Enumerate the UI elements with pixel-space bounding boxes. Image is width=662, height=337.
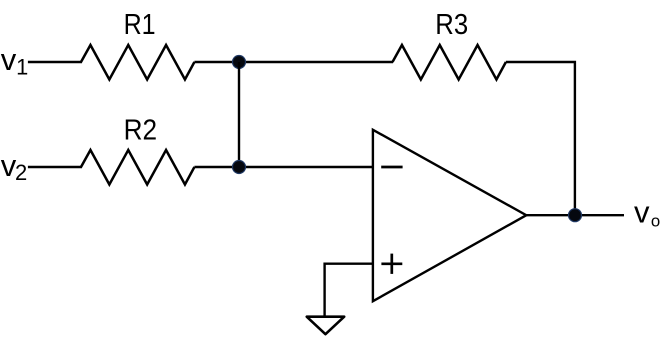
wire R2 to node B: [194, 166, 239, 168]
svg-text:v: v: [1, 42, 17, 77]
resistor R3: [393, 45, 506, 80]
wire node A to node B: [238, 62, 240, 167]
op-amp non-inverting input plus sign: [381, 254, 402, 274]
wire R3 to corner down to output node: [506, 62, 575, 215]
resistor R2: [81, 150, 194, 185]
junction node B: [233, 161, 246, 174]
wire op-amp output to node C: [526, 214, 575, 216]
wire op-amp non-inverting input to ground: [325, 264, 373, 316]
wire node B to op-amp inverting input: [239, 166, 373, 168]
wire v2 to R2: [28, 166, 82, 168]
op-amp U1: [373, 130, 526, 301]
label v2: [1, 148, 28, 185]
svg-text:o: o: [651, 212, 660, 231]
svg-text:v: v: [634, 195, 650, 230]
svg-text:1: 1: [16, 55, 28, 80]
resistor R1: [81, 45, 194, 80]
wire node A to R3: [239, 61, 393, 63]
label v1: [1, 42, 29, 80]
op-amp inverting input minus sign: [381, 166, 402, 169]
output node C: [569, 209, 582, 222]
svg-text:R2: R2: [124, 114, 158, 146]
wire R1 to node A: [194, 61, 239, 63]
junction node A: [233, 56, 246, 69]
svg-text:2: 2: [15, 160, 27, 185]
svg-text:R1: R1: [124, 9, 156, 41]
svg-text:R3: R3: [435, 9, 468, 41]
wire v1 to R1: [28, 61, 82, 63]
ground: [307, 317, 345, 335]
wire node C to vo label: [575, 214, 624, 216]
label vo: [634, 195, 660, 231]
